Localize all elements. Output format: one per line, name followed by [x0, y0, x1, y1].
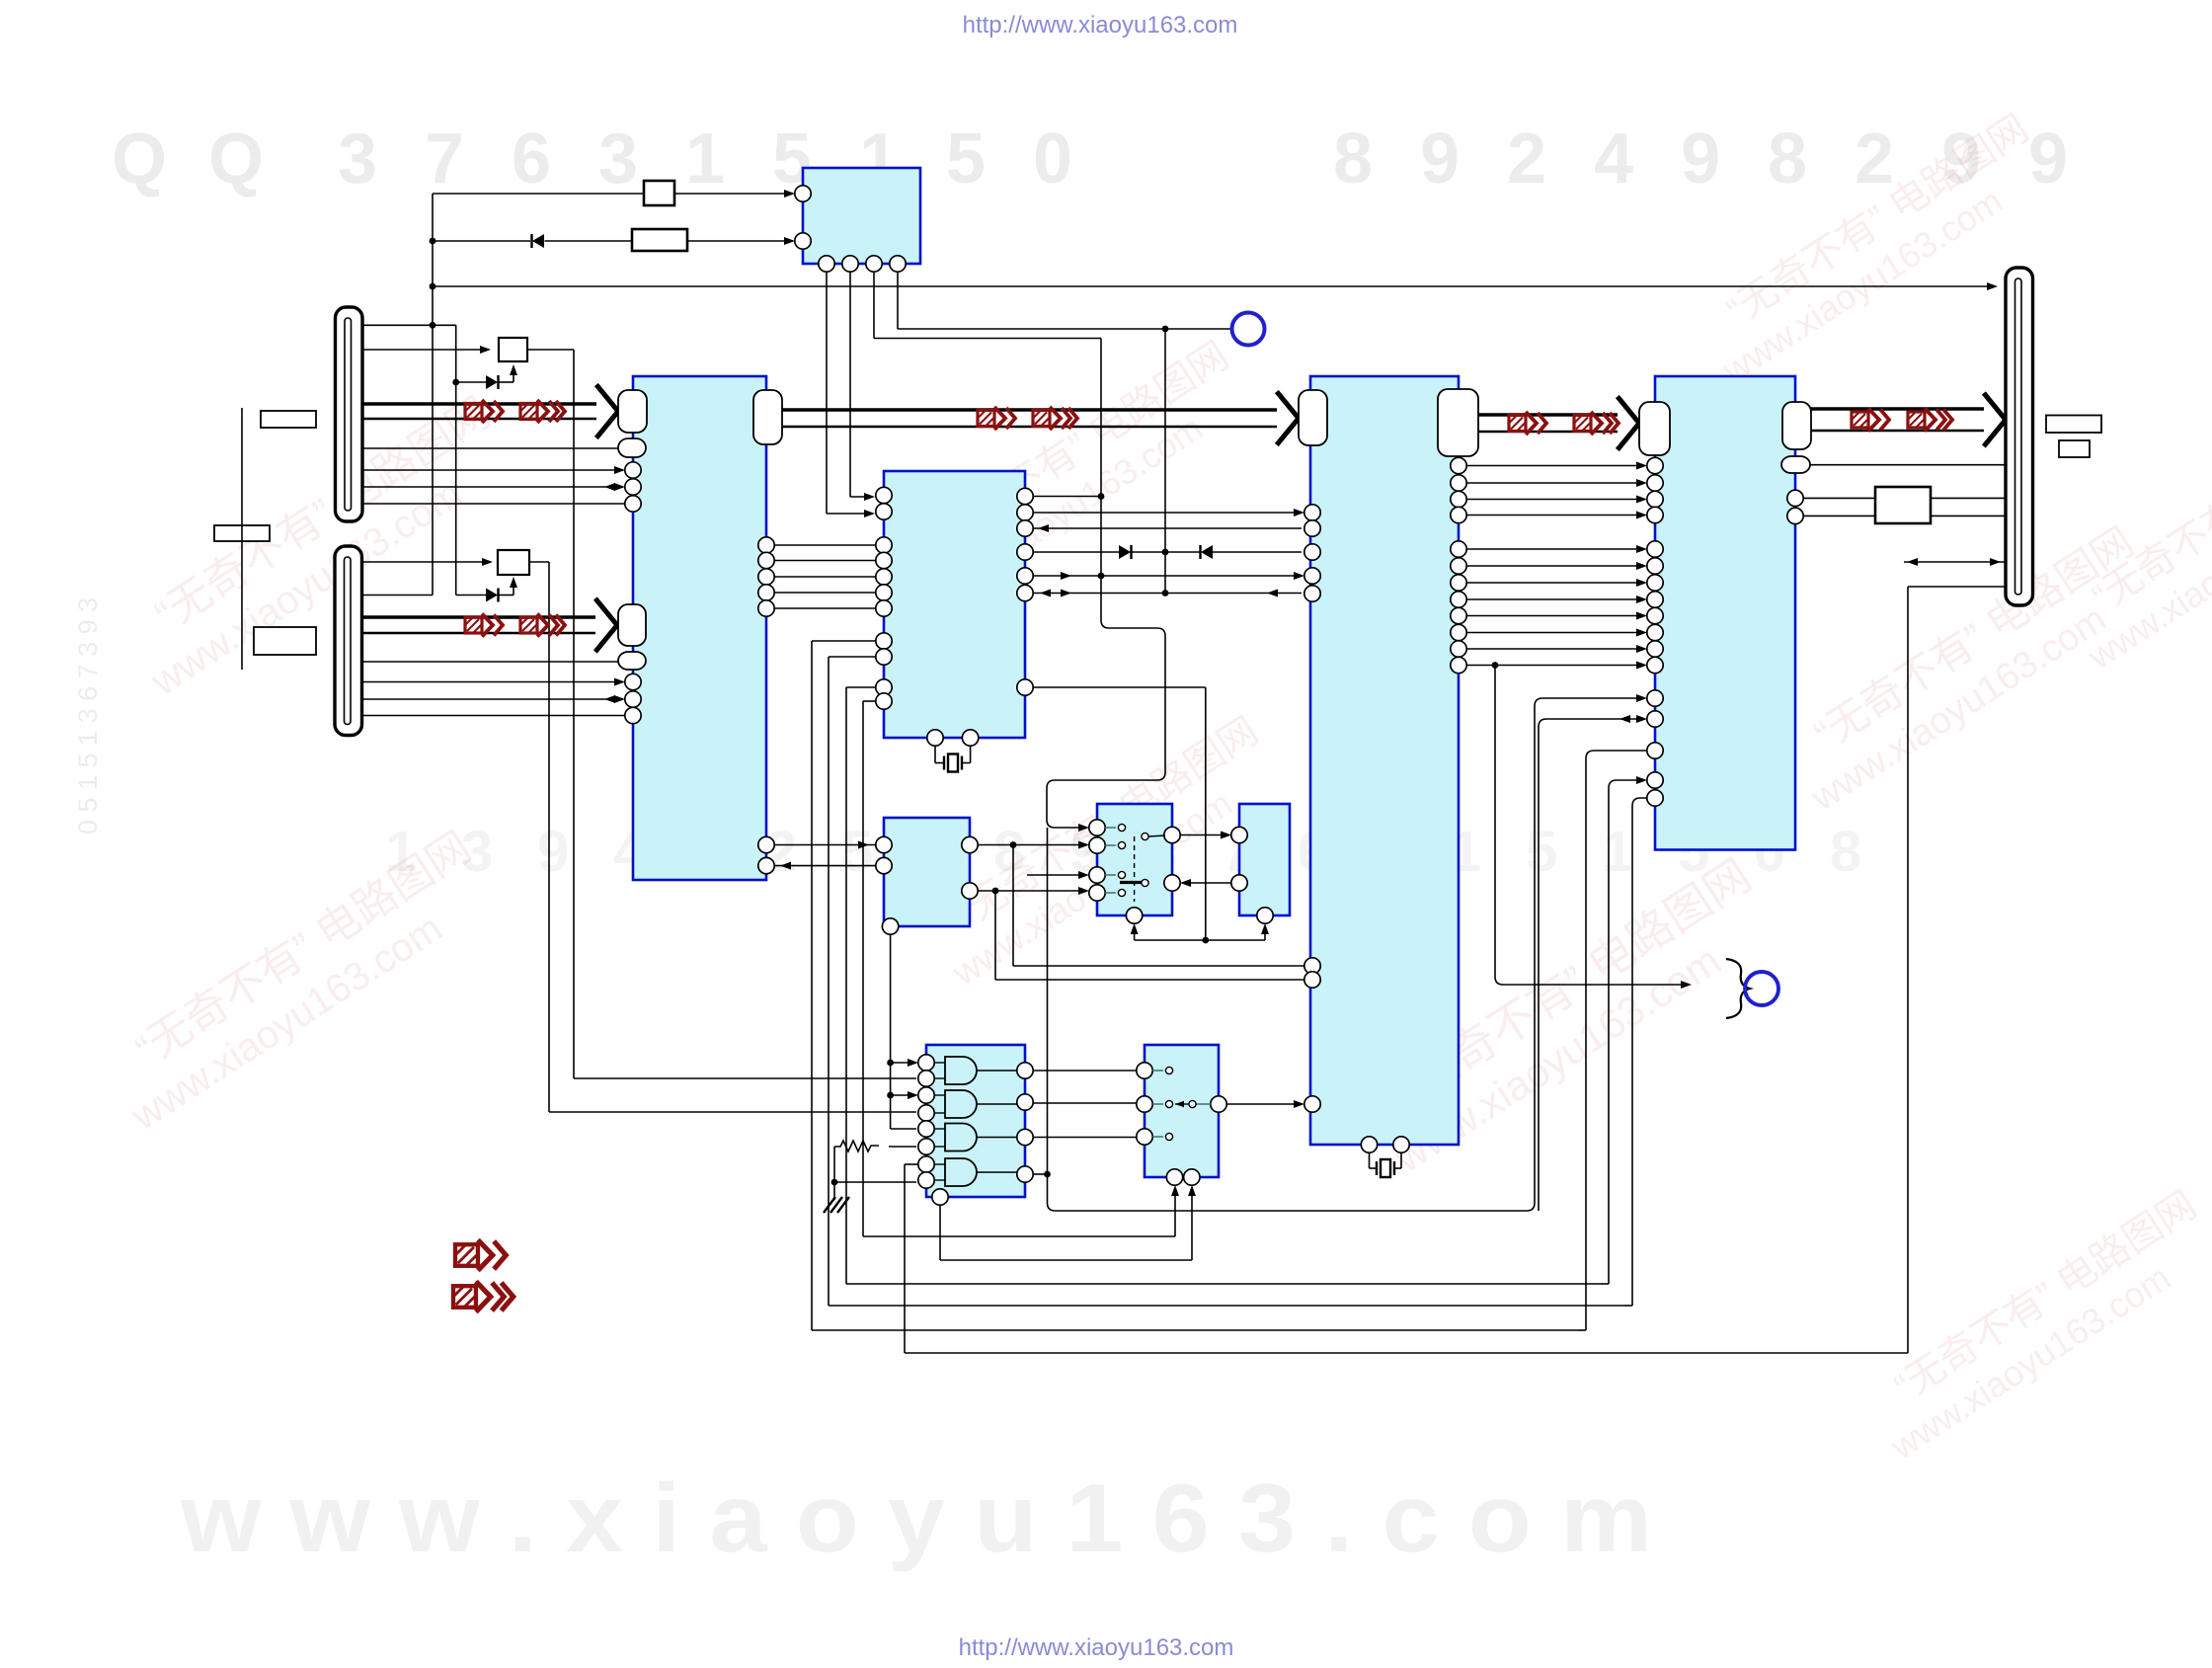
svg-text:5: 5	[1526, 820, 1557, 884]
svg-text:http://www.xiaoyu163.com: http://www.xiaoyu163.com	[959, 1634, 1234, 1661]
svg-text:5: 5	[946, 119, 986, 199]
svg-text:6: 6	[512, 119, 551, 199]
svg-text:0 5 1 5 1 3 6 7 3 9 3: 0 5 1 5 1 3 6 7 3 9 3	[73, 597, 103, 834]
svg-text:1: 1	[685, 119, 725, 199]
svg-text:2: 2	[1507, 119, 1546, 199]
svg-text:8: 8	[1830, 820, 1861, 884]
svg-text:9: 9	[2028, 119, 2068, 199]
svg-text:http://www.xiaoyu163.com: http://www.xiaoyu163.com	[963, 12, 1238, 39]
svg-text:3: 3	[598, 119, 638, 199]
svg-text:9: 9	[537, 820, 569, 884]
svg-text:3: 3	[338, 119, 377, 199]
svg-text:8: 8	[1333, 119, 1373, 199]
svg-text:Q: Q	[112, 119, 167, 199]
svg-text:4: 4	[1594, 119, 1633, 199]
svg-text:9: 9	[1420, 119, 1460, 199]
svg-text:Q: Q	[208, 119, 264, 199]
svg-text:0: 0	[1033, 119, 1072, 199]
svg-text:7: 7	[425, 119, 464, 199]
svg-text:1: 1	[1602, 820, 1633, 884]
svg-text:9: 9	[1681, 119, 1720, 199]
svg-text:8: 8	[1768, 119, 1807, 199]
svg-text:w w w . x i a o y u 1 6 3 . c: w w w . x i a o y u 1 6 3 . c o m	[180, 1464, 1652, 1572]
